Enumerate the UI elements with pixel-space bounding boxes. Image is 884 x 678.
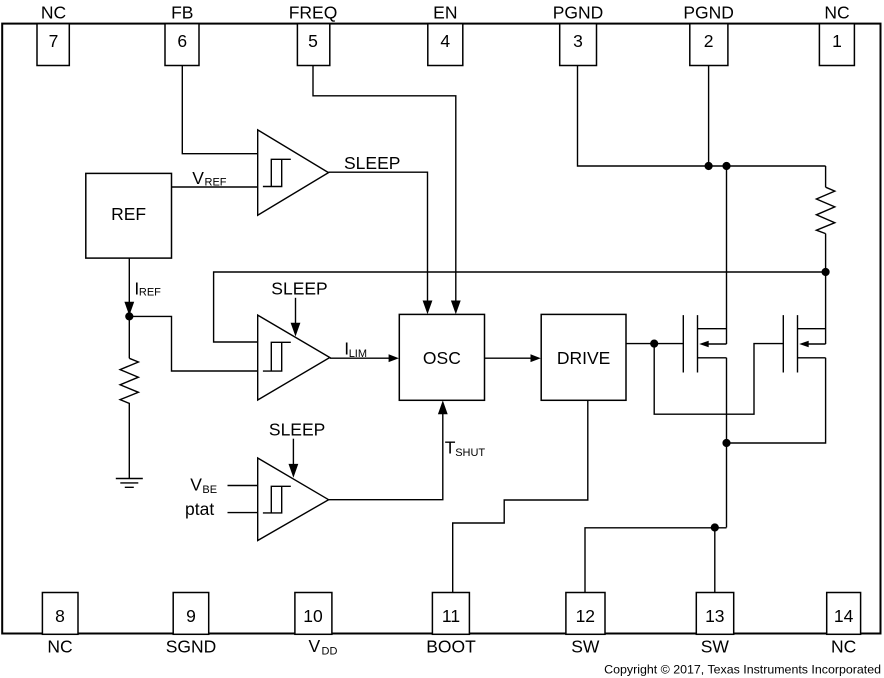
svg-text:NC: NC xyxy=(47,637,72,657)
svg-text:V: V xyxy=(309,636,321,656)
svg-text:NC: NC xyxy=(831,637,856,657)
svg-text:DRIVE: DRIVE xyxy=(557,348,610,368)
svg-text:PGND: PGND xyxy=(553,3,604,23)
svg-text:BOOT: BOOT xyxy=(426,637,476,657)
svg-text:EN: EN xyxy=(433,3,457,23)
svg-text:11: 11 xyxy=(442,606,460,626)
svg-text:FREQ: FREQ xyxy=(289,3,338,23)
svg-text:12: 12 xyxy=(576,606,595,626)
svg-text:PGND: PGND xyxy=(683,3,734,23)
svg-text:5: 5 xyxy=(308,31,318,51)
svg-text:13: 13 xyxy=(705,606,724,626)
svg-text:6: 6 xyxy=(177,31,187,51)
svg-text:1: 1 xyxy=(832,31,842,51)
svg-text:SGND: SGND xyxy=(166,637,217,657)
svg-text:9: 9 xyxy=(186,606,196,626)
svg-text:SW: SW xyxy=(701,637,730,657)
svg-text:7: 7 xyxy=(49,31,59,51)
svg-text:OSC: OSC xyxy=(423,348,461,368)
svg-text:NC: NC xyxy=(41,3,66,23)
svg-text:SLEEP: SLEEP xyxy=(269,420,325,440)
svg-text:4: 4 xyxy=(440,31,450,51)
svg-text:10: 10 xyxy=(303,606,323,626)
svg-text:V: V xyxy=(192,168,204,188)
svg-text:REF: REF xyxy=(139,287,161,299)
svg-text:2: 2 xyxy=(704,31,714,51)
svg-text:SW: SW xyxy=(571,637,600,657)
svg-text:SLEEP: SLEEP xyxy=(271,278,327,298)
svg-text:SHUT: SHUT xyxy=(455,447,485,459)
svg-text:DD: DD xyxy=(322,645,338,657)
svg-text:LIM: LIM xyxy=(349,348,367,360)
svg-text:14: 14 xyxy=(834,606,854,626)
svg-text:REF: REF xyxy=(205,176,227,188)
svg-text:V: V xyxy=(190,475,202,495)
svg-text:Copyright © 2017, Texas Instru: Copyright © 2017, Texas Instruments Inco… xyxy=(604,663,881,677)
svg-text:8: 8 xyxy=(55,606,65,626)
svg-text:NC: NC xyxy=(824,3,849,23)
svg-text:BE: BE xyxy=(202,484,217,496)
svg-text:FB: FB xyxy=(171,3,193,23)
svg-text:SLEEP: SLEEP xyxy=(344,153,400,173)
svg-text:ptat: ptat xyxy=(185,499,214,519)
svg-text:T: T xyxy=(445,438,456,458)
svg-text:REF: REF xyxy=(111,204,146,224)
svg-text:3: 3 xyxy=(573,31,583,51)
